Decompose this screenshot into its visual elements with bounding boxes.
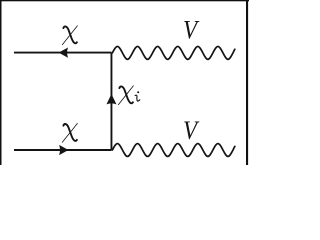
frame top border <box>0 0 249 1</box>
wire: top fermion line (incoming chi) <box>14 52 111 54</box>
wire: bottom fermion line (incoming chi) <box>14 149 111 151</box>
wire: internal vertical fermion line chi_i <box>110 53 112 150</box>
label chi_i (internal line) <box>118 86 133 105</box>
wavy boson line V (top) <box>112 46 234 59</box>
svg-text:V: V <box>183 117 200 145</box>
arrow on bottom fermion line (points right) <box>59 145 68 155</box>
frame right border <box>246 0 248 165</box>
label chi (bottom line) <box>62 123 77 142</box>
arrow on top fermion line (points left) <box>59 48 68 58</box>
label V (top boson) <box>183 16 200 44</box>
frame left border <box>0 0 2 165</box>
label V (bottom boson) <box>183 117 200 145</box>
svg-text:V: V <box>183 16 200 44</box>
label subscript i of chi_i (drawn as path) <box>135 91 140 101</box>
label chi (top line) <box>62 26 77 45</box>
wavy boson line V (bottom) <box>112 144 234 157</box>
arrow on internal line (points up) <box>106 94 116 104</box>
